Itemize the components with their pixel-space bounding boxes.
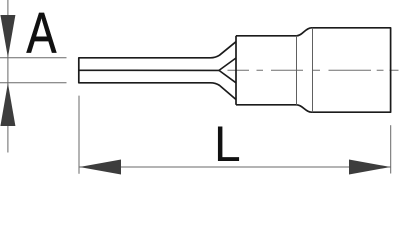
label A — [27, 0, 57, 65]
sleeve transition line 1 — [296, 36, 298, 105]
arrow L right — [349, 160, 391, 175]
wire: L dimension line — [79, 166, 390, 168]
svg-text:L: L — [214, 116, 241, 172]
terminal pin outline — [79, 42, 236, 100]
wire: L extension line right — [390, 125, 392, 173]
arrow L left — [79, 160, 121, 175]
arrow A up — [0, 83, 15, 126]
wire: A extension line bottom — [0, 82, 67, 84]
wire: A extension line top — [0, 57, 67, 59]
label L — [214, 116, 241, 172]
funnel mouth — [219, 58, 236, 83]
arrow A down — [0, 15, 15, 58]
wire: L extension line left — [78, 96, 80, 174]
sleeve left edge — [235, 36, 237, 105]
sleeve transition line 2 — [312, 28, 314, 112]
pin seam line — [79, 69, 219, 71]
wire: A dimension line — [7, 0, 9, 153]
sleeve body outline — [236, 28, 391, 112]
svg-text:A: A — [27, 0, 57, 65]
centerline — [228, 69, 399, 71]
